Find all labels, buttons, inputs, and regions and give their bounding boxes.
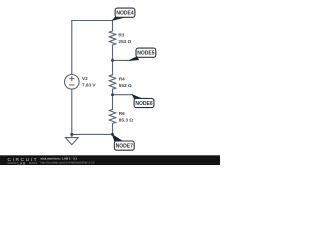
flag pennant NODE4 xyxy=(112,16,125,21)
flag pennant NODE5 xyxy=(127,56,139,61)
flag box NODE5 xyxy=(136,48,156,57)
svg-text:V2: V2 xyxy=(82,76,88,81)
svg-text:553 Ω: 553 Ω xyxy=(119,83,132,88)
svg-text:85.3 Ω: 85.3 Ω xyxy=(119,118,133,123)
wire R4 to R6 through node6 xyxy=(112,89,114,109)
flag box NODE4 xyxy=(115,8,135,17)
resistor R6 xyxy=(109,109,115,123)
wire stub NODE5 xyxy=(113,59,128,61)
svg-text:R6: R6 xyxy=(119,111,125,116)
flag box NODE6 xyxy=(134,98,154,107)
wire R6 to bottom xyxy=(112,124,114,135)
svg-text:R3: R3 xyxy=(118,33,124,38)
svg-text:NODE7: NODE7 xyxy=(116,144,133,150)
wire right rail: top stub to R3 xyxy=(112,21,114,31)
V2 minus sign xyxy=(70,84,74,86)
V2 plus sign xyxy=(70,77,74,81)
footer logo lines xyxy=(8,162,38,164)
svg-text:NODE5: NODE5 xyxy=(137,51,154,57)
junction node5 xyxy=(111,59,114,62)
flag pennant NODE6 xyxy=(132,94,143,100)
svg-text:NODE6: NODE6 xyxy=(135,101,152,107)
svg-text:LAB: LAB xyxy=(18,161,26,165)
junction ground xyxy=(70,133,73,136)
junction node7 xyxy=(111,133,114,136)
flag box NODE7 xyxy=(114,141,134,150)
junction node6 xyxy=(111,93,114,96)
flag pennant NODE7 xyxy=(112,134,124,143)
voltage source V2 circle xyxy=(65,75,80,90)
ground stub xyxy=(71,134,73,137)
svg-text:253 Ω: 253 Ω xyxy=(118,39,131,44)
wire R3 to R4 through node5 xyxy=(112,45,114,75)
svg-text:NODE4: NODE4 xyxy=(116,11,133,17)
wire left rail lower xyxy=(71,89,73,134)
wire stub NODE6 xyxy=(113,94,133,96)
svg-text:R4: R4 xyxy=(119,77,125,82)
wire top horizontal xyxy=(72,20,113,22)
svg-text:7.63 V: 7.63 V xyxy=(82,83,96,88)
svg-text:http://circuitlab.com/c/nm4sk5: http://circuitlab.com/c/nm4sk5rka5df/lab… xyxy=(41,160,95,164)
wire bottom horizontal xyxy=(72,133,113,135)
svg-text:nick.morrison : LAB 1 - 3.1: nick.morrison : LAB 1 - 3.1 xyxy=(41,156,78,160)
resistor R3 xyxy=(109,31,115,45)
ground triangle xyxy=(65,138,78,145)
resistor R4 xyxy=(109,75,115,90)
footer banner xyxy=(0,155,220,165)
wire left rail upper xyxy=(71,21,73,75)
